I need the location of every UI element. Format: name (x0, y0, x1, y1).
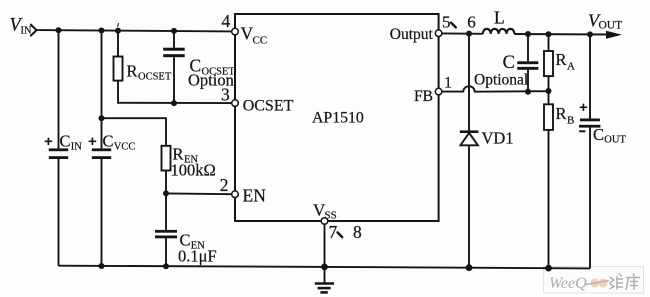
svg-text:C: C (60, 131, 71, 150)
node junction dot output rail VD1 (466, 31, 472, 37)
svg-text:8: 8 (353, 222, 362, 242)
svg-text:OCSET: OCSET (138, 71, 172, 82)
wire C_OUT branch (589, 34, 591, 268)
svg-text:R: R (127, 62, 138, 81)
wire capacitor C branch (527, 34, 529, 92)
wire top rail VIN to pin 4 (37, 30, 232, 31)
svg-text:OUT: OUT (604, 134, 626, 145)
capacitor C (503, 53, 539, 73)
wire R_A R_B divider chain (548, 34, 550, 268)
svg-text:L: L (494, 8, 505, 28)
pin 5,6 terminal circle (435, 30, 442, 37)
svg-text:Output: Output (390, 26, 434, 43)
node junction dot bottom rail R_B (545, 265, 552, 272)
node junction dot top rail C_OCSET (171, 28, 177, 34)
diode VD1 (460, 129, 514, 148)
svg-text:A: A (567, 61, 575, 73)
pin 2 terminal circle (232, 191, 239, 198)
svg-text:C: C (593, 125, 604, 144)
node junction dot top rail C_IN (56, 27, 62, 33)
wire output rail (442, 33, 608, 34)
svg-text:1: 1 (444, 75, 452, 92)
watermark WeeQoo (544, 267, 644, 294)
svg-text:2: 2 (220, 175, 229, 195)
node junction dot output rail R_A (546, 31, 552, 37)
node junction dot bottom rail C_EN (163, 263, 169, 269)
node junction dot bottom rail C_VCC (99, 263, 105, 269)
svg-text:CC: CC (253, 34, 268, 46)
svg-text:R: R (556, 104, 567, 123)
wire EN pin wire (166, 192, 232, 195)
svg-text:Optional: Optional (474, 71, 528, 88)
node junction dot output rail C (525, 31, 531, 37)
svg-text:3: 3 (221, 85, 230, 105)
svg-text:R: R (556, 50, 567, 69)
node junction dot C_VCC to R_EN branch (99, 115, 105, 121)
pin 1 terminal circle (435, 88, 442, 95)
pin 7,8 terminal circle (321, 218, 328, 225)
resistor R_B (544, 104, 574, 130)
svg-text:C: C (103, 131, 114, 150)
svg-text:AP1510: AP1510 (312, 110, 364, 127)
pin 4 terminal circle (232, 28, 239, 35)
svg-text:VCC: VCC (114, 142, 136, 153)
wire C_OCSET branch (173, 31, 175, 103)
svg-text:FB: FB (414, 88, 433, 105)
resistor R_OCSET (114, 57, 172, 83)
svg-text:6: 6 (467, 13, 476, 32)
capacitor C_IN (45, 131, 83, 159)
wire R_EN branch from C_VCC line (102, 118, 167, 266)
svg-text:0.1μF: 0.1μF (178, 247, 217, 266)
capacitor C_OCSET (163, 48, 235, 90)
node junction dot top rail C_VCC (99, 28, 105, 34)
svg-text:4: 4 (222, 11, 231, 31)
svg-text:WeeQ: WeeQ (549, 275, 587, 292)
wire C_VCC branch (101, 31, 103, 267)
capacitor C_EN (155, 230, 217, 266)
svg-text:C: C (503, 53, 515, 73)
ground (315, 284, 334, 293)
svg-text:B: B (567, 115, 574, 127)
inductor L (483, 29, 515, 34)
svg-text:7: 7 (329, 222, 338, 242)
node junction dot EN wire (163, 190, 169, 196)
node junction dot OCSET wire (171, 100, 177, 106)
capacitor C_OUT (579, 104, 626, 146)
node junction dot output rail C_OUT (587, 31, 593, 37)
wire bottom rail (59, 266, 591, 269)
capacitor C_VCC (89, 131, 136, 159)
svg-text:OUT: OUT (599, 20, 623, 32)
input terminal chevron (31, 25, 37, 36)
op-amp U1 AP1510 IC box (235, 14, 439, 221)
pin 3 terminal circle (232, 100, 239, 107)
node junction dot FB divider (546, 88, 552, 94)
node junction dot bottom rail VD1 (466, 264, 473, 271)
wire VD1 branch (468, 34, 470, 268)
svg-text:VD1: VD1 (482, 129, 514, 148)
svg-text:100kΩ: 100kΩ (171, 161, 216, 180)
node junction dot bottom rail V_SS (321, 264, 328, 271)
wire C_IN branch (58, 30, 60, 265)
svg-text:5: 5 (442, 12, 451, 31)
wire FB to divider with hop over VD1 (442, 86, 549, 92)
wire R_OCSET branch (118, 31, 232, 104)
svg-text:IN: IN (71, 142, 82, 153)
resistor R_EN (162, 145, 216, 180)
resistor R_A (544, 50, 575, 76)
wire V_SS to ground (324, 224, 326, 282)
output arrow (606, 31, 622, 39)
node junction dot top rail R_OCSET (115, 28, 121, 34)
svg-text:OCSET: OCSET (243, 98, 294, 115)
svg-text:EN: EN (243, 185, 267, 205)
node junction dot FB wire C (525, 89, 531, 95)
